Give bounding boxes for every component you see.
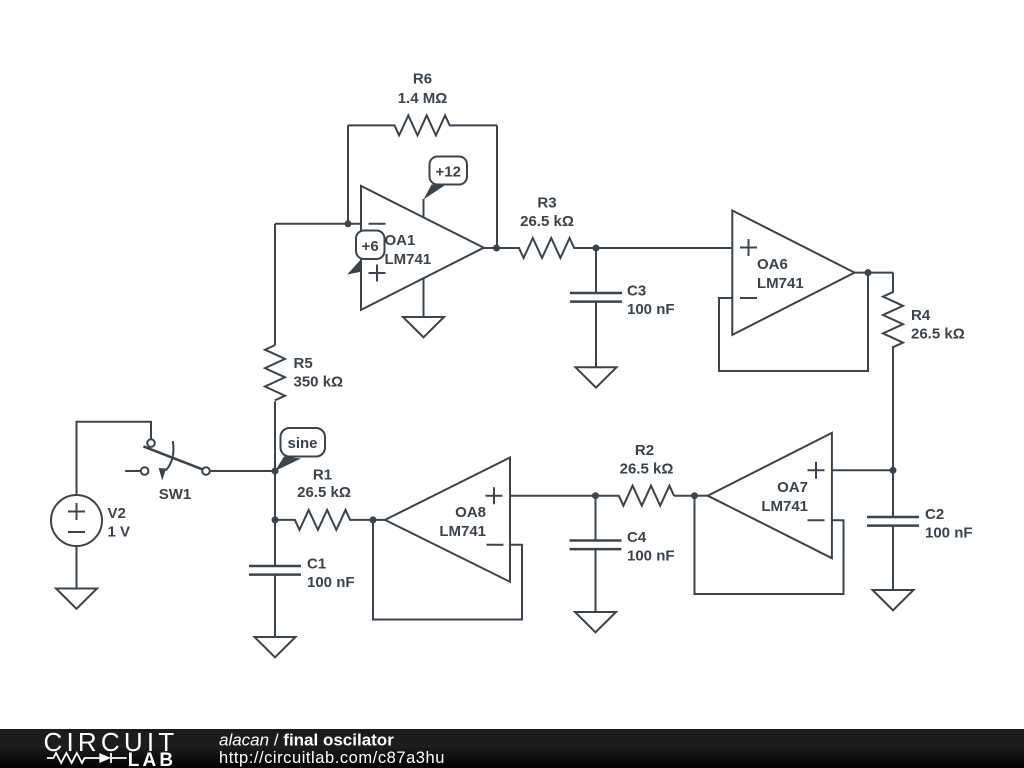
wire OA7 output xyxy=(695,495,708,497)
wire V2 to SW1 xyxy=(77,422,152,495)
node sine xyxy=(272,468,279,475)
svg-text:OA1: OA1 xyxy=(385,232,416,249)
wire OA1 positive supply pin xyxy=(423,199,425,218)
voltage source V2 xyxy=(51,495,130,546)
resistor R3 xyxy=(484,238,596,258)
wire node to OA8 + input xyxy=(510,495,596,497)
svg-text:R5: R5 xyxy=(294,355,313,372)
resistor R4 xyxy=(883,273,903,471)
svg-text:R4: R4 xyxy=(911,307,931,324)
node R1/C1 xyxy=(272,516,279,523)
svg-text:+12: +12 xyxy=(435,164,460,181)
node OA7 output xyxy=(691,492,698,499)
wire OA7 + input xyxy=(832,469,893,471)
svg-text:V2: V2 xyxy=(108,505,126,522)
wire OA7 feedback loop xyxy=(695,496,844,594)
flag +12 xyxy=(424,185,447,200)
svg-text:26.5 kΩ: 26.5 kΩ xyxy=(297,484,351,501)
ground V2 xyxy=(56,589,97,609)
op-amp U OA6 xyxy=(732,211,854,335)
node OA8 output xyxy=(370,516,377,523)
capacitor C1 xyxy=(274,520,276,566)
svg-text:LM741: LM741 xyxy=(439,523,486,540)
svg-text:sine: sine xyxy=(287,435,317,452)
svg-text:C1: C1 xyxy=(307,556,326,573)
capacitor C4 xyxy=(595,496,597,541)
wire SW1 to sine node xyxy=(210,470,275,472)
switch SW1 xyxy=(125,439,210,503)
logo resistor-diode glyph xyxy=(47,753,127,763)
svg-text:SW1: SW1 xyxy=(159,486,192,503)
svg-text:26.5 kΩ: 26.5 kΩ xyxy=(620,461,674,478)
ground C2 xyxy=(873,590,914,610)
svg-text:26.5 kΩ: 26.5 kΩ xyxy=(520,213,574,230)
node OA7 + input / C2 xyxy=(890,467,897,474)
flag sine xyxy=(275,457,301,472)
wire OA6 output xyxy=(855,272,894,274)
wire R6 left vertical xyxy=(347,125,349,223)
wire V2 to ground xyxy=(76,546,78,589)
op-amp U OA1 xyxy=(361,186,484,310)
op-amp U OA8 (points left) xyxy=(385,458,510,582)
node OA1 output xyxy=(493,245,500,252)
svg-text:OA7: OA7 xyxy=(777,479,808,496)
svg-text:26.5 kΩ: 26.5 kΩ xyxy=(911,326,965,343)
wire node to OA6 + input xyxy=(596,247,732,249)
wire OA6 feedback loop xyxy=(719,273,868,371)
svg-text:alacan / final oscilator: alacan / final oscilator xyxy=(219,731,394,750)
svg-text:R2: R2 xyxy=(635,442,654,459)
resistor R6 xyxy=(348,115,497,135)
flag +6 xyxy=(347,260,361,275)
svg-text:C2: C2 xyxy=(925,506,944,523)
svg-text:C4: C4 xyxy=(627,529,647,546)
svg-text:R3: R3 xyxy=(537,195,556,212)
svg-text:1 V: 1 V xyxy=(108,524,131,541)
svg-text:100 nF: 100 nF xyxy=(627,548,675,565)
ground C4 xyxy=(575,612,616,632)
svg-text:350 kΩ: 350 kΩ xyxy=(294,374,344,391)
resistor R1 xyxy=(275,510,373,530)
node R3/C3 xyxy=(593,245,600,252)
svg-text:100 nF: 100 nF xyxy=(627,301,675,318)
op-amp U OA7 (points left) xyxy=(708,433,832,558)
capacitor C2 xyxy=(892,470,894,517)
node OA1 inverting input xyxy=(345,220,352,227)
svg-text:LM741: LM741 xyxy=(761,498,808,515)
ground C1 xyxy=(255,637,296,657)
svg-text:1.4 MΩ: 1.4 MΩ xyxy=(398,90,448,107)
wire OA1 negative supply pin xyxy=(423,279,425,318)
footer bar xyxy=(0,729,1024,768)
svg-text:100 nF: 100 nF xyxy=(307,574,355,591)
ground C3 xyxy=(576,367,617,387)
wire OA1 inverting input from R5 node xyxy=(275,223,361,225)
resistor R2 xyxy=(596,486,695,506)
wire R5 to sine node to R1 node xyxy=(274,401,276,520)
svg-text:R6: R6 xyxy=(413,71,432,88)
resistor R5 xyxy=(265,345,285,400)
capacitor C3 xyxy=(595,248,597,293)
wire OA8 output xyxy=(373,519,385,521)
node R2/C4 xyxy=(592,492,599,499)
node OA6 output xyxy=(865,269,872,276)
svg-text:LM741: LM741 xyxy=(757,275,804,292)
wire OA8 feedback loop xyxy=(373,520,522,620)
svg-text:LAB: LAB xyxy=(128,750,176,768)
svg-text:R1: R1 xyxy=(313,467,332,484)
svg-text:+6: +6 xyxy=(362,238,379,255)
svg-text:C3: C3 xyxy=(627,283,646,300)
svg-text:100 nF: 100 nF xyxy=(925,525,973,542)
wire R6 right vertical xyxy=(496,125,498,248)
wire main vertical with R5 xyxy=(274,224,276,345)
svg-text:OA8: OA8 xyxy=(455,504,486,521)
svg-text:http://circuitlab.com/c87a3hu: http://circuitlab.com/c87a3hu xyxy=(219,749,445,767)
svg-text:LM741: LM741 xyxy=(385,251,432,268)
ground OA1 xyxy=(403,317,444,337)
svg-text:OA6: OA6 xyxy=(757,256,788,273)
